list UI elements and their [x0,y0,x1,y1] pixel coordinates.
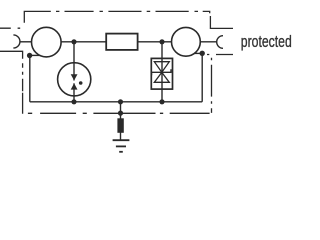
node: GDT branch on top wire [71,39,76,44]
gas discharge tube upper electrode arrow [71,74,78,80]
device boundary: right terminal notch lower dash-dot line [207,54,233,56]
gas discharge tube lower electrode arrow [71,83,78,89]
wire: resistor to right contact circle [138,41,172,43]
node: tap on right circle [200,51,205,56]
resistor R (series impedance) [106,34,137,50]
wire: junction down to gas discharge tube [73,42,75,81]
wire: bottom line [30,101,202,103]
device boundary: right terminal notch upper line [210,16,233,28]
wire: stub from left circle to tap dot [30,54,41,56]
node: GDT on bottom wire [71,99,76,104]
wire: left arc to left contact circle [20,41,32,43]
node: tap on left circle [27,53,32,58]
wire: block to earth symbol [120,133,122,141]
wire: left branch down [29,56,31,102]
wire: gas discharge tube down to bottom line [73,83,75,102]
right disconnect contact circle [172,27,201,56]
wire: junction down through suppressor to bottom line [161,42,163,102]
suppressor diode upper triangle [154,62,169,73]
node: suppressor on bottom wire [159,99,164,104]
device boundary: left terminal notch lower line and left side [0,51,23,113]
gas discharge tube F1 (circle) [58,63,91,96]
wire: right branch down [201,53,203,102]
node: earth branch on bottom wire [118,99,123,104]
gas discharge tube gas dot [79,81,83,85]
left disconnect contact circle [32,27,62,57]
wire: earth branch down [120,102,122,119]
svg-text:protected: protected [241,33,292,51]
node: earth branch on boundary line [118,111,123,116]
unprotected side terminal arc (mating contact) [13,35,20,48]
device boundary dash-dot box: top side and top-left corner [24,11,209,22]
device boundary: left terminal notch upper dash-dot line [0,27,20,29]
ground [113,139,130,141]
wire: stub from right circle to tap dot [194,52,202,54]
node: suppressor branch on top wire [159,39,164,44]
device boundary: right side dash-dot [211,58,213,113]
device boundary: bottom side dash-dot [28,112,210,114]
suppressor diode zener bar [152,69,172,75]
earthing resistance (filled block) [117,118,123,133]
wire: right circle to right arc [200,41,217,43]
suppressor diode lower triangle [154,72,169,82]
protected side terminal arc (mating contact) [217,36,223,49]
suppressor diode box [151,58,172,89]
wire: top line, circle to resistor [61,41,106,43]
